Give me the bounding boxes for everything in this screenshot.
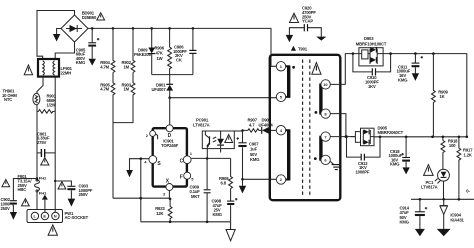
capacitor C905 — [76, 28, 100, 65]
wire clamp bottom rail — [152, 74, 193, 76]
pin 7 — [321, 132, 330, 141]
ground under C905 — [89, 59, 96, 66]
svg-text:UF4007: UF4007 — [152, 87, 167, 92]
ground under C918 — [402, 167, 409, 174]
wire 16V rail — [383, 54, 467, 137]
pin F of IC901 — [180, 172, 195, 181]
diode D909 — [134, 28, 155, 74]
capacitor C909 — [190, 158, 211, 221]
resistor R902 — [122, 28, 135, 72]
wire S branch down — [140, 159, 142, 222]
pin 2 — [276, 175, 285, 184]
optocoupler PC901 — [193, 117, 234, 148]
wire feedback line — [411, 198, 474, 200]
ground under C911 — [412, 73, 419, 81]
svg-text:1000PF: 1000PF — [356, 169, 370, 174]
wire neutral rail down — [54, 77, 56, 213]
resistor R918 — [441, 137, 458, 170]
svg-text:D25B60: D25B60 — [82, 15, 97, 20]
capacitor C902 — [1, 177, 39, 212]
svg-text:T901: T901 — [298, 46, 308, 51]
winding primary pin1-pin5 — [286, 66, 295, 97]
svg-text:FH1: FH1 — [39, 191, 47, 196]
svg-text:MKT: MKT — [191, 194, 200, 199]
svg-text:F: F — [180, 175, 183, 181]
line filter LF901 — [38, 59, 73, 77]
wire AC neutral from bridge bottom — [55, 42, 74, 59]
ground under C902 — [10, 212, 17, 220]
wire bias top line — [234, 130, 242, 132]
thermistor TH901 — [2, 89, 40, 105]
wire drain down to D pin — [169, 98, 171, 125]
earth pin E chassis ground — [42, 195, 48, 213]
svg-text:250V: 250V — [1, 206, 11, 211]
ground under C903 — [68, 199, 76, 207]
svg-text:CK: CK — [176, 58, 182, 63]
capacitor C901 X-cap — [37, 131, 55, 157]
ground arrow right end of rail — [226, 222, 235, 241]
ground primary side of C920 — [286, 35, 293, 42]
diode D904 — [259, 118, 277, 134]
resistor R923 — [155, 199, 172, 222]
wire 12V rail — [374, 136, 467, 138]
svg-text:KMG: KMG — [76, 60, 85, 65]
resistor R904 — [100, 28, 115, 72]
wire drain to pin5 — [170, 97, 277, 99]
svg-text:NTC: NTC — [4, 97, 12, 102]
capacitor C907 — [237, 131, 260, 180]
ground under C907 — [239, 179, 246, 193]
svg-text:LTV817A: LTV817A — [421, 184, 438, 189]
capacitor C903 — [54, 180, 93, 199]
warning triangle left of C920 — [290, 13, 299, 22]
wire C pin line — [191, 157, 231, 159]
warning triangle near BD901 — [97, 13, 105, 20]
bridge rectifier BD901 — [61, 11, 97, 42]
wire pin10 to D903 — [330, 54, 359, 85]
warning triangle in T901 — [312, 63, 321, 75]
svg-text:HBC: HBC — [18, 187, 27, 192]
svg-text:KMG: KMG — [390, 162, 399, 167]
resistor R907 — [243, 118, 262, 132]
svg-text:P6KE200: P6KE200 — [134, 52, 152, 57]
IC901 TOP246F switcher — [153, 128, 187, 186]
svg-text:TOP246F: TOP246F — [161, 143, 179, 148]
capacitor C912 snubber — [347, 137, 381, 175]
capacitor C914 — [400, 199, 428, 229]
resistor R901 — [37, 94, 57, 114]
transformer core dashed lines — [303, 60, 310, 197]
wire S pin to ground — [130, 159, 149, 170]
svg-text:275V: 275V — [37, 140, 47, 145]
AC socket PW1 — [27, 210, 89, 223]
diode D905 — [351, 125, 404, 145]
wire pin2 return line — [243, 178, 277, 180]
resistor R917 — [457, 137, 473, 200]
svg-text:250V: 250V — [79, 192, 89, 197]
svg-text:LTV817A: LTV817A — [193, 122, 210, 127]
svg-text:N: N — [54, 214, 57, 219]
warning triangle left of C903 — [58, 182, 66, 189]
svg-text:MBRF10H100CT: MBRF10H100CT — [356, 41, 387, 46]
svg-text:1KV: 1KV — [368, 84, 376, 89]
svg-text:6.8: 6.8 — [221, 180, 227, 185]
pin X of IC901 — [163, 179, 173, 197]
ground (bridge minus) — [53, 29, 61, 42]
winding primary pin4-pin2 — [286, 130, 291, 179]
svg-text:22MH: 22MH — [61, 71, 72, 76]
resistor R906 — [155, 28, 172, 74]
pin S of IC901 — [144, 156, 161, 167]
svg-text:KMG: KMG — [400, 219, 409, 224]
wire AC live top loop to bridge — [37, 11, 75, 60]
ground secondary side of C920 — [316, 37, 326, 41]
svg-text:R906: R906 — [155, 45, 165, 50]
wire pin7 to D905 — [330, 136, 355, 138]
capacitor C910 snubber — [353, 54, 391, 89]
svg-text:KIA431: KIA431 — [450, 218, 464, 223]
svg-text:100: 100 — [449, 143, 456, 148]
svg-text:MBRF2060CT: MBRF2060CT — [378, 130, 404, 135]
svg-text:4.7M: 4.7M — [100, 64, 109, 69]
fuse F901 — [18, 174, 48, 209]
capacitor C920 Y-cap — [289, 6, 321, 37]
resistor R908 — [219, 158, 233, 200]
svg-text:KMG: KMG — [213, 212, 222, 217]
warning triangle left of PC1 — [424, 165, 434, 176]
warning triangle below socket — [48, 225, 57, 236]
svg-text:E: E — [43, 214, 46, 219]
pin 10 — [321, 80, 330, 89]
pin C of IC901 — [180, 151, 193, 165]
warning triangle left of LF901 — [24, 65, 32, 75]
svg-text:AC-SOCKET: AC-SOCKET — [65, 215, 89, 220]
capacitor C908 — [212, 198, 238, 222]
node drain junction — [168, 96, 171, 99]
optocoupler PC1 LED — [421, 169, 449, 189]
wire PC1 to feedback node — [443, 181, 445, 199]
svg-text:4.7M: 4.7M — [100, 87, 109, 92]
svg-text:YCAP: YCAP — [302, 19, 313, 24]
svg-text:1/2W: 1/2W — [47, 102, 56, 107]
svg-text:4.7: 4.7 — [249, 122, 255, 127]
diode D901 — [152, 75, 174, 98]
resistor R903 — [113, 73, 135, 123]
wire live rail down — [37, 77, 43, 180]
warning triangle far left — [2, 179, 10, 186]
transformer T901 outline — [270, 55, 341, 200]
ground under C914 — [415, 229, 425, 236]
pin D of IC901 — [166, 125, 173, 139]
pin 2 stub of IC901 — [146, 131, 158, 140]
label T901 — [291, 46, 308, 52]
svg-text:KMG: KMG — [250, 157, 259, 162]
svg-text:D: D — [168, 133, 172, 139]
capacitor C911 — [397, 54, 424, 83]
svg-text:1K: 1K — [440, 94, 445, 99]
capacitor C906 — [173, 28, 197, 74]
warning triangle under C901 — [41, 158, 49, 166]
winding secondary pin7-pin6 — [314, 137, 325, 160]
ground under IC904 — [437, 229, 451, 236]
svg-text:1.2K: 1.2K — [464, 152, 472, 157]
svg-text:KMG: KMG — [398, 78, 407, 83]
node main DC+ rail — [88, 28, 276, 66]
svg-text:FH2: FH2 — [39, 176, 47, 181]
pin 4 — [276, 126, 285, 135]
winding secondary pin10-pin8 — [315, 84, 325, 113]
svg-text:1W: 1W — [157, 56, 163, 61]
svg-text:C: C — [180, 158, 184, 164]
earth symbol at pin 6 — [330, 162, 341, 170]
ground under S — [126, 170, 133, 177]
transistor in PC901 — [205, 131, 209, 158]
svg-text:10: 10 — [323, 82, 328, 87]
capacitor C918 — [389, 137, 411, 168]
warning triangle in PC901 — [225, 135, 233, 143]
wire primary bottom rail — [141, 221, 231, 223]
svg-text:1M: 1M — [124, 64, 130, 69]
wire X line — [113, 191, 170, 199]
svg-text:UF4004: UF4004 — [259, 122, 274, 127]
resistor R909 — [432, 54, 449, 137]
diode D903 — [356, 36, 387, 66]
LED in PC901 — [213, 131, 224, 153]
wire pin8 join pin7 — [330, 114, 346, 137]
warning triangle below F901 label — [22, 199, 30, 206]
shunt regulator IC904 KIA431 — [440, 199, 465, 229]
pin 1 — [276, 62, 285, 71]
resistor R905 — [100, 73, 115, 199]
svg-text:12K: 12K — [156, 211, 163, 216]
pin 5 — [276, 92, 285, 101]
pin 6 — [321, 155, 330, 164]
pin 8 — [321, 109, 330, 118]
svg-text:47K: 47K — [156, 51, 163, 56]
svg-text:1M: 1M — [124, 87, 130, 92]
